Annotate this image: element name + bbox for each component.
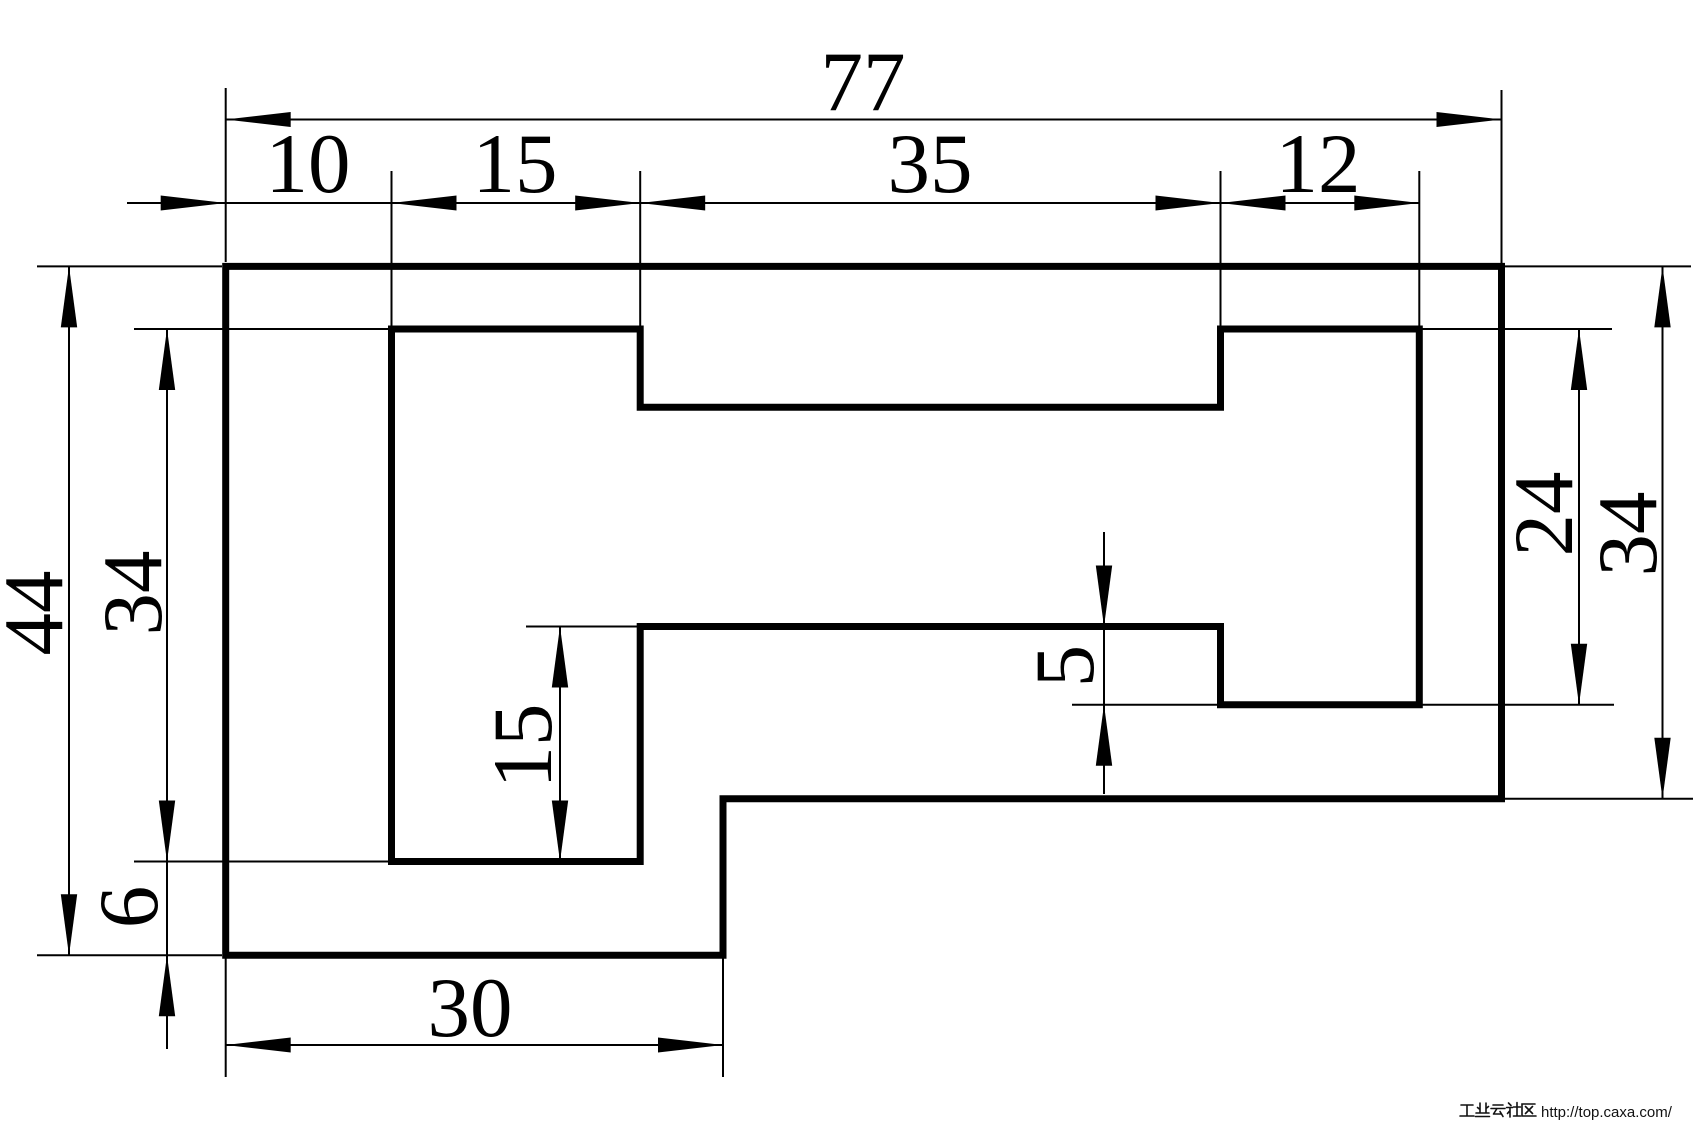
svg-text:24: 24 [1497, 472, 1591, 557]
arrow 5 top (outside) [1096, 566, 1112, 627]
svg-text:6: 6 [82, 886, 176, 929]
extension line x=1419 top [1418, 171, 1420, 326]
arrow 15 inner top [552, 627, 568, 688]
arrow 5 bottom (outside) [1096, 705, 1112, 766]
dimension line 34 left + 6 tail [166, 329, 168, 1049]
arrow at x=391 (10 right / 15 left) [392, 196, 457, 211]
inner pocket profile [392, 329, 1420, 862]
dimension line 5 [1103, 532, 1105, 794]
dimension line 34 right [1662, 266, 1664, 798]
svg-text:15: 15 [476, 704, 570, 789]
watermark CJK glyphs 工业云社区 (hand drawn) [1460, 1103, 1536, 1118]
extension line y=329 left [134, 328, 388, 330]
extension line y=266 left [37, 265, 222, 267]
svg-text:34: 34 [86, 551, 180, 636]
svg-text:30: 30 [428, 961, 513, 1055]
extension line y=705 right [1072, 704, 1614, 706]
arrow 44 bottom [61, 894, 77, 955]
svg-text:34: 34 [1581, 492, 1675, 577]
dimension line 15 inner [559, 627, 561, 862]
extension line x=1501 top [1501, 90, 1503, 263]
extension line x=391 top [391, 171, 393, 326]
svg-text:10: 10 [266, 117, 351, 211]
svg-text:77: 77 [821, 35, 906, 129]
svg-text:12: 12 [1276, 117, 1361, 211]
arrow 15 right [575, 196, 640, 211]
extension line x=640 top [639, 171, 641, 326]
extension line y=266 right [1505, 265, 1691, 267]
arrow 35 right [1156, 196, 1221, 211]
arrow 12 left [1221, 196, 1286, 211]
extension line x=226 bottom [225, 958, 227, 1077]
arrow 6 bottom (outside) [159, 955, 175, 1016]
arrow 30 right [658, 1038, 723, 1053]
extension line y=861 left [134, 861, 392, 863]
arrow 35 left [640, 196, 705, 211]
extension line x=723 bottom [722, 958, 724, 1077]
arrow 77 left [226, 112, 291, 127]
arrow 34R top [1654, 266, 1670, 327]
arrow 44 top [61, 266, 77, 327]
dimension line 30 [226, 1044, 723, 1046]
arrow 24 top [1571, 329, 1587, 390]
svg-text:http://top.caxa.com/: http://top.caxa.com/ [1541, 1104, 1673, 1121]
svg-text:5: 5 [1018, 645, 1112, 688]
dimension line 10/15/35/12 row [127, 202, 1419, 204]
dimension line 44 [68, 266, 70, 955]
arrow 24 bottom [1571, 644, 1587, 705]
extension line y=626 left of shelf [526, 626, 640, 628]
arrow 77 right [1437, 112, 1502, 127]
extension line y=799 right [1505, 798, 1693, 800]
arrow 15 inner bottom [552, 801, 568, 862]
arrow 34L bottom / 6 top [159, 801, 175, 862]
svg-text:35: 35 [888, 117, 973, 211]
extension line x=226 top [225, 88, 227, 262]
arrow 34L top [159, 329, 175, 390]
outer profile of part [226, 266, 1502, 955]
extension line x=1220 top [1220, 171, 1222, 326]
arrow 30 left [226, 1038, 291, 1053]
arrow 10 left (outside) [161, 196, 226, 211]
extension line y=329 right [1419, 328, 1612, 330]
svg-text:44: 44 [0, 571, 81, 656]
arrow 12 right [1354, 196, 1419, 211]
arrow 34R bottom [1654, 738, 1670, 799]
dimension line 77 [226, 119, 1502, 121]
svg-text:15: 15 [473, 117, 558, 211]
extension line y=955 left [37, 954, 222, 956]
dimension line 24 [1578, 329, 1580, 705]
